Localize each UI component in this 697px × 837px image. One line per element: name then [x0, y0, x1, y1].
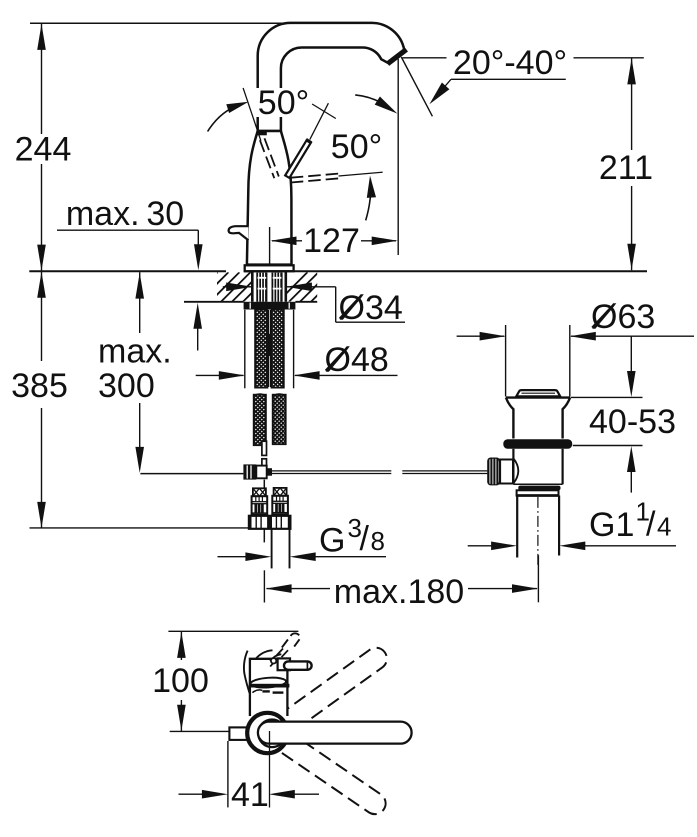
dim 211 vertical (right) [599, 58, 653, 270]
tilted lever rod (up-right) [285, 140, 311, 178]
svg-text:211: 211 [599, 149, 653, 187]
svg-text:20°-40°: 20°-40° [453, 44, 567, 82]
svg-text:max.180: max.180 [334, 573, 464, 611]
spout tip extension line [397, 59, 399, 255]
dim 100 (spout projection, top view) [152, 631, 298, 731]
label 50° (lower) [330, 128, 385, 166]
countertop cross-section hatching and underside line [184, 272, 351, 302]
cartridge ring band (top view) [249, 684, 290, 688]
spout outlet face [388, 49, 407, 63]
threaded connection rods in shank [256, 273, 282, 302]
mounting washer and nut below counter [244, 302, 296, 310]
faucet base plate [245, 265, 294, 271]
dim Ø48 (base diameter) [196, 310, 398, 389]
faucet body (top view) [250, 659, 288, 716]
hose end connector left [252, 488, 268, 514]
lever open position (dashed) [260, 138, 279, 178]
svg-text:/: / [646, 506, 656, 544]
drain tailpipe [517, 496, 559, 558]
dim max.300 (hose length) vertical [98, 272, 172, 473]
label 50° (upper) [256, 84, 312, 122]
drain washer ring [516, 490, 560, 495]
drain body below gasket [513, 449, 562, 485]
pop-up rod between hoses [268, 310, 271, 387]
pop-up rod clamp joint [243, 464, 272, 479]
horizontal actuating rod (left part) [140, 473, 243, 475]
drain rubber gasket [503, 439, 572, 449]
side lever (closed position) [229, 226, 249, 240]
lever handle pointing right (top view) [278, 658, 312, 670]
svg-text:385: 385 [11, 367, 68, 405]
hose end connector right [272, 488, 288, 514]
svg-text:244: 244 [15, 131, 72, 169]
arc arrow for 50° lever swing (upper) [208, 102, 249, 132]
lever pivot pin (top view) [271, 658, 276, 663]
handle swung up position (dashed) [283, 648, 387, 730]
dim Ø34 (hole diameter) [223, 283, 405, 328]
horizontal actuating rod (right part, with break) [272, 471, 487, 474]
svg-text:50°: 50° [258, 84, 309, 122]
svg-text:max. 30: max. 30 [66, 195, 184, 233]
dim 127 (spout reach) [271, 222, 398, 260]
centerline below circle [269, 731, 271, 808]
top reference line (spout height datum) [30, 22, 292, 24]
countertop surface line [29, 270, 647, 272]
braided supply hoses (upper segment) [254, 295, 285, 397]
mounting shank tube walls [252, 271, 285, 302]
pop-up rod lower pieces [262, 441, 267, 466]
lever pivot pin mark [257, 132, 267, 136]
drain centerline [537, 497, 539, 565]
tilted lever axis extension [310, 103, 329, 139]
dim max.30 (counter thickness) label and leader arrows [57, 195, 203, 351]
swivel spout alternate position (dashed cap) [282, 633, 300, 647]
svg-text:8: 8 [371, 526, 385, 556]
pop-up knob rod inside body [269, 227, 271, 264]
connection pipe below nuts [272, 529, 290, 569]
spout angle line [401, 57, 432, 116]
svg-text:4: 4 [657, 512, 671, 542]
drain plug cap [516, 390, 560, 396]
dim Ø63 (drain flange diameter) [457, 298, 694, 397]
svg-text:50°: 50° [331, 128, 382, 166]
svg-text:300: 300 [98, 367, 155, 405]
svg-text:G1: G1 [589, 506, 634, 544]
pop-up rod tail below clamp [263, 480, 265, 543]
braided supply hoses (lower segment) [253, 380, 287, 455]
swivel spout silhouette curve (top view) [244, 651, 250, 694]
svg-text:/: / [360, 520, 370, 558]
dim 20°-40° (spout tilt range) [403, 44, 644, 104]
dim 385 vertical (left) with bottom extension line [11, 271, 249, 528]
drain flange (trumpet) and neck [506, 398, 570, 439]
dim 244 vertical (left) [15, 23, 72, 271]
faucet spout tube [258, 23, 405, 131]
lever end tab (left, top view) [229, 727, 248, 740]
handle lever (solid, top view) [258, 722, 412, 744]
sketch curves at body top [255, 649, 288, 667]
arc arrow for spout swivel at extension line [355, 95, 397, 114]
ball rod knurled nut and collar [487, 457, 513, 486]
dim max.180 (center distance) [264, 555, 538, 611]
handle swung down position (dashed) [282, 735, 386, 814]
lever horizontal position (dashed) with axis line [291, 172, 383, 182]
sketch marks below band [252, 690, 283, 693]
lever ball circle (top view) [258, 720, 286, 748]
dim 40-53 (deck thickness range for drain) [571, 336, 676, 492]
spout tube section ellipse (top view) [250, 677, 286, 689]
svg-text:40-53: 40-53 [589, 403, 676, 441]
faucet base circle (top view) [247, 713, 287, 753]
lever axis reference line (upper) [243, 88, 261, 141]
svg-text:G: G [319, 522, 345, 560]
drain lower gasket band [518, 486, 560, 491]
axis cross tick [312, 104, 336, 119]
label G 3/8 thread [218, 513, 387, 561]
svg-text:127: 127 [303, 222, 360, 260]
svg-text:max.: max. [98, 333, 172, 371]
label G1 1/4 thread [468, 496, 676, 550]
arc arrow for 50° lever swing (lower) [366, 176, 376, 221]
dim 41 (top view) [179, 741, 320, 814]
faucet body cone [247, 131, 292, 265]
svg-text:41: 41 [231, 776, 269, 814]
connector hex nuts [249, 516, 291, 529]
svg-text:100: 100 [152, 662, 209, 700]
